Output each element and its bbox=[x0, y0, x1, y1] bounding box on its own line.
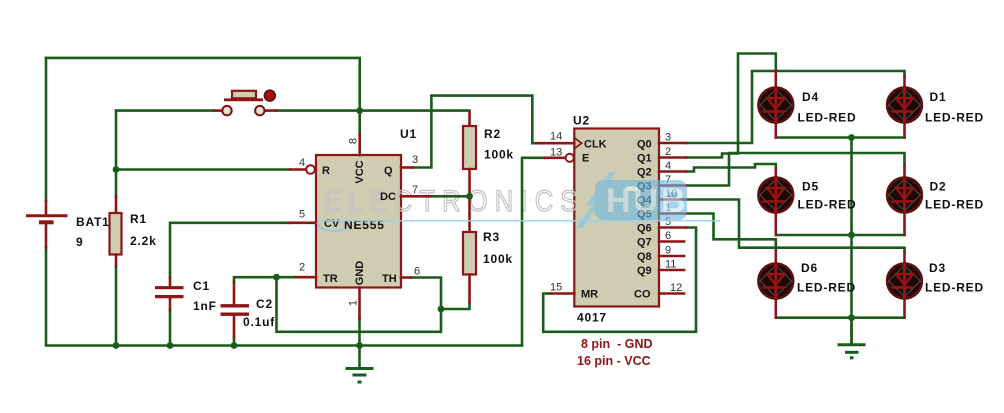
svg-text:MR: MR bbox=[581, 289, 598, 301]
wire button row left bbox=[116, 109, 214, 112]
LED D4 bbox=[759, 70, 857, 138]
wire Q out pin3 to CLK bbox=[413, 96, 537, 168]
wire CV pin5 to C1 bbox=[170, 223, 289, 278]
svg-text:U1: U1 bbox=[400, 127, 417, 141]
wire battery top bbox=[45, 58, 48, 201]
svg-text:1nF: 1nF bbox=[193, 299, 217, 313]
svg-text:3: 3 bbox=[412, 154, 418, 166]
wire Q3 to D2 bbox=[686, 153, 905, 186]
junction bus GND bbox=[356, 342, 363, 349]
svg-text:9: 9 bbox=[665, 245, 671, 257]
wire button right to VCC junction to R2 bbox=[276, 109, 470, 112]
svg-text:100k: 100k bbox=[484, 148, 514, 162]
svg-text:D6: D6 bbox=[801, 261, 818, 275]
svg-text:4017: 4017 bbox=[577, 311, 607, 325]
junction cathode row2 bbox=[848, 232, 855, 239]
svg-text:Q2: Q2 bbox=[637, 167, 652, 179]
wire Q5 to D6 bbox=[686, 214, 776, 252]
junction reset node bbox=[113, 166, 120, 173]
svg-text:D5: D5 bbox=[802, 180, 819, 194]
svg-text:CLK: CLK bbox=[584, 139, 607, 151]
svg-text:Q8: Q8 bbox=[637, 251, 652, 263]
svg-text:BAT1: BAT1 bbox=[76, 215, 110, 229]
svg-text:TR: TR bbox=[323, 273, 338, 285]
svg-text:5: 5 bbox=[299, 209, 305, 221]
U2 pin numbers bbox=[550, 131, 682, 295]
junction TR node bbox=[273, 274, 280, 281]
svg-text:D4: D4 bbox=[802, 90, 819, 104]
push button bbox=[214, 90, 277, 115]
junction bus R1 bbox=[113, 342, 120, 349]
svg-text:R: R bbox=[322, 165, 330, 177]
svg-text:R1: R1 bbox=[130, 212, 147, 226]
svg-text:Q7: Q7 bbox=[637, 237, 652, 249]
svg-text:Q0: Q0 bbox=[637, 139, 652, 151]
LED D2 bbox=[887, 165, 984, 235]
wire E pin13 to ground bus bbox=[522, 158, 545, 346]
junction cathode row3 bbox=[848, 314, 855, 321]
svg-text:LED-RED: LED-RED bbox=[925, 111, 984, 125]
wire MR to Q6 loop bbox=[543, 228, 696, 332]
wire R3 bottom link bbox=[441, 302, 470, 309]
watermark ELECTRONICS bbox=[324, 184, 585, 217]
junction DC node bbox=[466, 193, 473, 200]
wire C2 bottom bbox=[233, 337, 236, 346]
svg-text:4: 4 bbox=[299, 157, 305, 169]
svg-text:3: 3 bbox=[665, 132, 671, 144]
svg-text:Q: Q bbox=[384, 165, 393, 177]
svg-text:ELECTRONICS: ELECTRONICS bbox=[324, 184, 585, 217]
capacitor C2 bbox=[221, 282, 276, 337]
svg-text:8: 8 bbox=[348, 138, 360, 144]
svg-text:6: 6 bbox=[414, 266, 420, 278]
svg-text:LED-RED: LED-RED bbox=[925, 198, 984, 212]
wire R1 column bbox=[115, 111, 118, 346]
junction VCC node bbox=[356, 107, 363, 114]
svg-text:D2: D2 bbox=[930, 180, 947, 194]
svg-text:2: 2 bbox=[665, 146, 671, 158]
svg-text:D1: D1 bbox=[930, 90, 947, 104]
svg-text:TH: TH bbox=[382, 273, 397, 285]
wire Q4 to D3 bbox=[686, 200, 905, 253]
wire DC pin7 junction bbox=[431, 195, 470, 198]
wire LED cathode bus bbox=[850, 138, 853, 345]
wire U1 GND pin to bus bbox=[358, 319, 361, 346]
svg-text:1: 1 bbox=[348, 300, 360, 306]
wire C1 bottom bbox=[169, 310, 172, 346]
svg-text:100k: 100k bbox=[483, 252, 513, 266]
svg-text:8 pin - GND: 8 pin - GND bbox=[581, 337, 653, 351]
wire battery bottom to ground bus bbox=[46, 247, 522, 345]
ground right bbox=[838, 318, 866, 358]
svg-text:15: 15 bbox=[550, 282, 562, 294]
U1 labels bbox=[322, 127, 417, 285]
svg-text:DC: DC bbox=[380, 191, 396, 203]
svg-text:9: 9 bbox=[76, 235, 83, 249]
resistor R2 bbox=[463, 112, 514, 196]
svg-text:2.2k: 2.2k bbox=[130, 234, 157, 248]
svg-text:HUB: HUB bbox=[606, 182, 689, 220]
svg-text:Q1: Q1 bbox=[637, 153, 652, 165]
op-amp U1 pins (NE555) bbox=[289, 133, 431, 319]
svg-text:7: 7 bbox=[412, 184, 418, 196]
svg-text:R2: R2 bbox=[484, 127, 501, 141]
svg-text:11: 11 bbox=[665, 259, 676, 271]
svg-text:D3: D3 bbox=[929, 261, 946, 275]
svg-text:LED-RED: LED-RED bbox=[798, 111, 857, 125]
op-amp U1 body (NE555 timer) bbox=[316, 155, 401, 288]
svg-text:14: 14 bbox=[550, 131, 562, 143]
svg-text:16 pin - VCC: 16 pin - VCC bbox=[577, 354, 651, 368]
wire LED cathode row 2 bbox=[776, 234, 905, 237]
wire reset pin 4 bbox=[116, 168, 290, 171]
svg-text:LED-RED: LED-RED bbox=[798, 198, 857, 212]
LED D1 bbox=[887, 76, 984, 138]
junction bus C2 bbox=[231, 342, 238, 349]
U2 labels bbox=[573, 114, 653, 325]
svg-text:CO: CO bbox=[634, 289, 651, 301]
U2 body (4017 counter) bbox=[574, 129, 659, 307]
svg-text:E: E bbox=[582, 153, 589, 165]
wire VCC stub upper bbox=[358, 111, 361, 133]
svg-text:0.1uf: 0.1uf bbox=[243, 315, 275, 329]
svg-text:C1: C1 bbox=[193, 279, 210, 293]
svg-text:12: 12 bbox=[670, 282, 682, 294]
wire TR pin2 to C2 bbox=[234, 277, 296, 282]
svg-text:Q9: Q9 bbox=[637, 265, 652, 277]
svg-text:Q6: Q6 bbox=[637, 223, 652, 235]
resistor R3 bbox=[463, 196, 513, 302]
svg-text:VCC: VCC bbox=[354, 160, 366, 183]
svg-text:CV: CV bbox=[324, 218, 340, 230]
svg-text:R3: R3 bbox=[483, 230, 500, 244]
U1 pin numbers bbox=[299, 138, 420, 306]
U2 pins (4017) bbox=[537, 138, 686, 294]
U2 note GND bbox=[581, 337, 653, 351]
watermark HUB logo bbox=[576, 172, 689, 228]
LED D6 bbox=[759, 251, 856, 318]
wire Q1 to D4 bbox=[686, 54, 776, 158]
junction cathode row1 bbox=[848, 134, 855, 141]
svg-text:6: 6 bbox=[665, 230, 671, 242]
wire VCC top rail bbox=[46, 58, 360, 111]
svg-text:2: 2 bbox=[299, 262, 305, 274]
svg-text:LED-RED: LED-RED bbox=[797, 281, 856, 295]
wire LED cathode row 1 bbox=[776, 136, 905, 139]
svg-text:C2: C2 bbox=[256, 297, 273, 311]
battery BAT1 bbox=[26, 201, 110, 249]
U2 note VCC bbox=[577, 354, 651, 368]
svg-text:GND: GND bbox=[354, 261, 366, 286]
watermark blue line bbox=[317, 221, 720, 231]
svg-text:LED-RED: LED-RED bbox=[925, 281, 984, 295]
capacitor C1 bbox=[155, 278, 217, 313]
ground left bbox=[346, 346, 374, 383]
svg-text:4: 4 bbox=[665, 160, 671, 172]
junction bus C1 bbox=[167, 342, 174, 349]
wire Q2 to D5 bbox=[686, 164, 776, 172]
wire TR to TH loop bbox=[277, 277, 442, 332]
svg-text:U2: U2 bbox=[573, 114, 590, 128]
junction TH R3 node bbox=[438, 306, 445, 313]
svg-text:13: 13 bbox=[550, 147, 562, 159]
wire Q0 to D1 bbox=[686, 71, 905, 143]
LED D5 bbox=[759, 169, 857, 235]
resistor R1 bbox=[110, 196, 157, 266]
LED D3 bbox=[887, 252, 984, 318]
wire LED cathode row 3 bbox=[776, 316, 905, 319]
